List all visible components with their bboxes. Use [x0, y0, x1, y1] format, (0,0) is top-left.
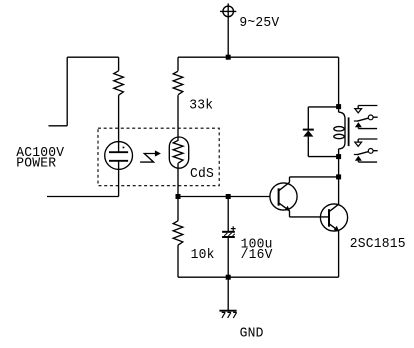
svg-text:/16V: /16V	[241, 248, 274, 264]
node relay bottom junction	[336, 154, 341, 159]
photoresistor CdS	[169, 137, 188, 168]
node CdS-10k junction	[176, 194, 181, 199]
wire supply drop	[227, 19, 229, 57]
wire AC left vertical	[66, 57, 68, 126]
wire 10k to bottom rail	[177, 245, 179, 277]
dashed enclosure (lamp-CdS optocoupler)	[98, 128, 219, 186]
svg-text:9~25V: 9~25V	[239, 16, 280, 32]
relay contact set 2	[354, 139, 378, 162]
wire Q1 collector top	[290, 176, 339, 178]
node capacitor junction	[226, 194, 231, 199]
transistor Q1	[270, 177, 297, 217]
label 2SC1815	[350, 237, 406, 253]
wire bottom rail	[178, 276, 339, 278]
svg-text:GND: GND	[240, 326, 264, 342]
wire to ground	[227, 277, 229, 310]
relay core bar	[348, 117, 350, 146]
wire resistor to lamp	[118, 95, 120, 152]
wire lamp bottom	[118, 161, 120, 197]
light arrow	[140, 150, 161, 162]
wire diode branch top	[308, 106, 338, 108]
svg-text:2SC1815: 2SC1815	[350, 237, 406, 253]
wire AC bottom stub	[47, 196, 119, 198]
svg-text:10k: 10k	[191, 248, 215, 264]
label GND	[240, 326, 264, 342]
node ground junction	[226, 275, 231, 280]
svg-text:POWER: POWER	[16, 156, 56, 172]
node supply junction	[226, 55, 231, 60]
wire lamp column upper	[118, 57, 120, 71]
wire junction to capacitor	[227, 197, 229, 232]
wire rail to relay	[338, 57, 340, 106]
resistor 10k	[173, 221, 183, 245]
wire mid horizontal to base	[178, 196, 270, 198]
resistor 33k	[173, 71, 183, 95]
svg-text:CdS: CdS	[190, 167, 214, 183]
relay contact set 1	[354, 106, 378, 129]
wire junction to 10k	[177, 197, 179, 221]
svg-text:33k: 33k	[189, 98, 213, 114]
ground	[219, 311, 236, 318]
wire capacitor to bottom rail	[227, 238, 229, 277]
wire rail to 33k	[177, 57, 179, 71]
power terminal 9~25V	[220, 3, 236, 19]
label AC100V POWER	[16, 146, 65, 172]
node relay top junction	[336, 104, 341, 109]
resistor (lamp ballast)	[114, 71, 124, 95]
wire Q1 emitter to Q2 base	[290, 216, 330, 218]
neon lamp	[105, 142, 133, 170]
wire relay to collector junction	[338, 157, 340, 177]
relay coil	[334, 107, 345, 157]
label 10k	[191, 248, 215, 264]
label 100u/16V	[241, 237, 274, 263]
label CdS	[190, 167, 214, 183]
node collector junction	[336, 174, 341, 179]
label 33k	[189, 98, 213, 114]
diode (flyback)	[303, 107, 314, 157]
wire AC input top stub	[49, 125, 68, 127]
capacitor 100u/16V	[222, 226, 236, 237]
label 9~25V	[239, 16, 280, 32]
wire AC top horizontal	[67, 56, 118, 58]
transistor Q2 2SC1815	[320, 177, 347, 277]
wire diode branch bottom	[308, 156, 338, 158]
wire CdS bottom	[177, 163, 179, 196]
wire 33k to CdS	[177, 95, 179, 141]
wire top rail	[178, 56, 339, 58]
